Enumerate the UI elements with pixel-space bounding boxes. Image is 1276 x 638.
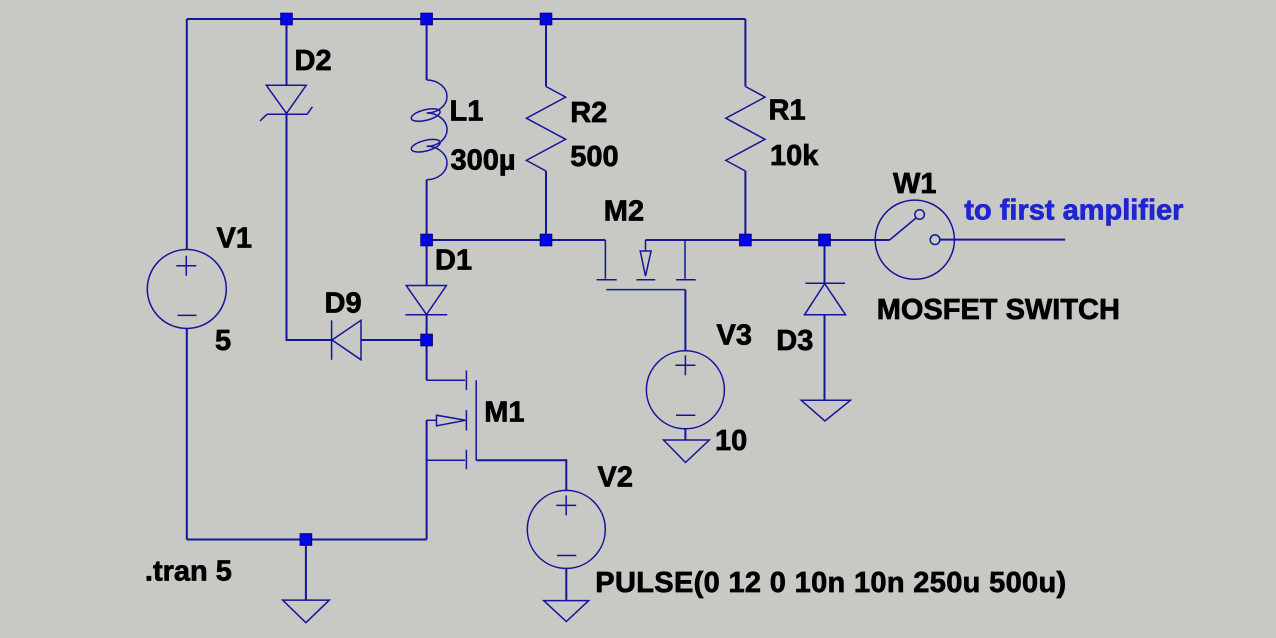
svg-text:L1: L1 xyxy=(450,96,484,128)
wire M2 gate to V3 xyxy=(684,290,686,351)
wire top rail xyxy=(187,18,746,20)
inductor L1 xyxy=(410,80,447,180)
svg-text:M1: M1 xyxy=(484,396,524,428)
diode D9 xyxy=(332,320,361,360)
wire W1 output to right xyxy=(940,239,1065,241)
svg-text:D3: D3 xyxy=(776,325,813,357)
svg-text:V1: V1 xyxy=(217,223,252,255)
svg-text:V3: V3 xyxy=(717,319,752,351)
wire L1 bottom lead xyxy=(426,180,428,240)
wire M1 gate to V2 xyxy=(476,460,566,490)
wire D3 anode to ground xyxy=(824,315,826,401)
svg-text:.tran 5: .tran 5 xyxy=(145,556,232,588)
node junction top rail at R2 xyxy=(540,13,552,25)
wire left rail lower (V1 to bottom rail) xyxy=(186,329,188,540)
node junction mid rail at R2 xyxy=(540,234,552,246)
svg-text:D9: D9 xyxy=(325,288,362,320)
svg-text:PULSE(0 12 0 10n 10n 250u 500u: PULSE(0 12 0 10n 10n 250u 500u) xyxy=(595,567,1066,599)
wire mid rail left (node to M2 drain) xyxy=(427,239,606,241)
wire D9 anode to node at x427 xyxy=(361,339,427,341)
node junction bottom rail at ground xyxy=(300,534,312,546)
wire D1 cathode lead xyxy=(426,315,428,340)
svg-text:M2: M2 xyxy=(604,196,644,228)
svg-text:300µ: 300µ xyxy=(451,144,516,176)
node junction mid rail at L1/D1 xyxy=(421,234,433,246)
wire left rail upper (top rail to V1) xyxy=(186,19,188,250)
wire D2 anode from top rail xyxy=(286,19,288,85)
nmos transistor M2 xyxy=(597,240,696,290)
zener diode D2 xyxy=(260,85,312,121)
diode D1 xyxy=(406,286,448,315)
svg-text:W1: W1 xyxy=(893,168,937,200)
node junction mid rail at R1 xyxy=(740,234,752,246)
ground below D3 xyxy=(801,400,850,421)
wire D3 top lead xyxy=(824,240,826,283)
svg-text:D2: D2 xyxy=(295,45,332,77)
svg-text:R1: R1 xyxy=(769,95,806,127)
wire bottom rail xyxy=(187,539,427,541)
node junction top rail at D2 xyxy=(281,13,293,25)
voltage source V3 xyxy=(646,351,724,429)
svg-text:D1: D1 xyxy=(435,245,472,277)
wire R2 bottom lead xyxy=(545,171,547,240)
diode D3 xyxy=(805,283,846,315)
wire D2 cathode down and corner to D9 xyxy=(287,114,332,340)
nmos transistor M1 xyxy=(427,370,477,469)
wire V2 minus to ground xyxy=(565,568,567,600)
voltage source V2 xyxy=(527,490,605,568)
wire L1 top lead xyxy=(426,19,428,80)
node junction top rail at L1 xyxy=(421,13,433,25)
wire D1 anode lead xyxy=(426,240,428,286)
svg-text:500: 500 xyxy=(570,141,618,173)
ground below bottom rail xyxy=(283,600,330,623)
switch W1 xyxy=(825,200,955,279)
wire V3 minus to ground xyxy=(684,429,686,440)
svg-text:to first amplifier: to first amplifier xyxy=(964,194,1183,226)
wire R1 bottom lead xyxy=(744,171,746,240)
wire R2 top lead xyxy=(545,19,547,87)
wire R1 top lead xyxy=(744,19,746,87)
wire M1 source/bulk to bottom rail xyxy=(426,420,428,539)
voltage source V1 xyxy=(147,250,226,329)
svg-text:10: 10 xyxy=(715,425,747,457)
wire mid rail right (M2 source to W1) xyxy=(646,239,876,241)
svg-text:R2: R2 xyxy=(570,97,607,129)
node junction mid rail at D3 xyxy=(819,234,831,246)
svg-text:5: 5 xyxy=(215,325,231,357)
resistor R2 xyxy=(526,87,565,172)
node junction D9/D1/M1 xyxy=(421,334,433,346)
ground below V3 xyxy=(664,440,710,463)
wire node to M1 drain xyxy=(426,340,428,380)
svg-text:V2: V2 xyxy=(598,462,633,494)
svg-text:10k: 10k xyxy=(770,140,819,172)
wire ground lead on bottom rail xyxy=(305,540,307,601)
resistor R1 xyxy=(726,87,765,172)
svg-text:MOSFET SWITCH: MOSFET SWITCH xyxy=(877,294,1120,326)
ground below V2 xyxy=(544,601,589,622)
